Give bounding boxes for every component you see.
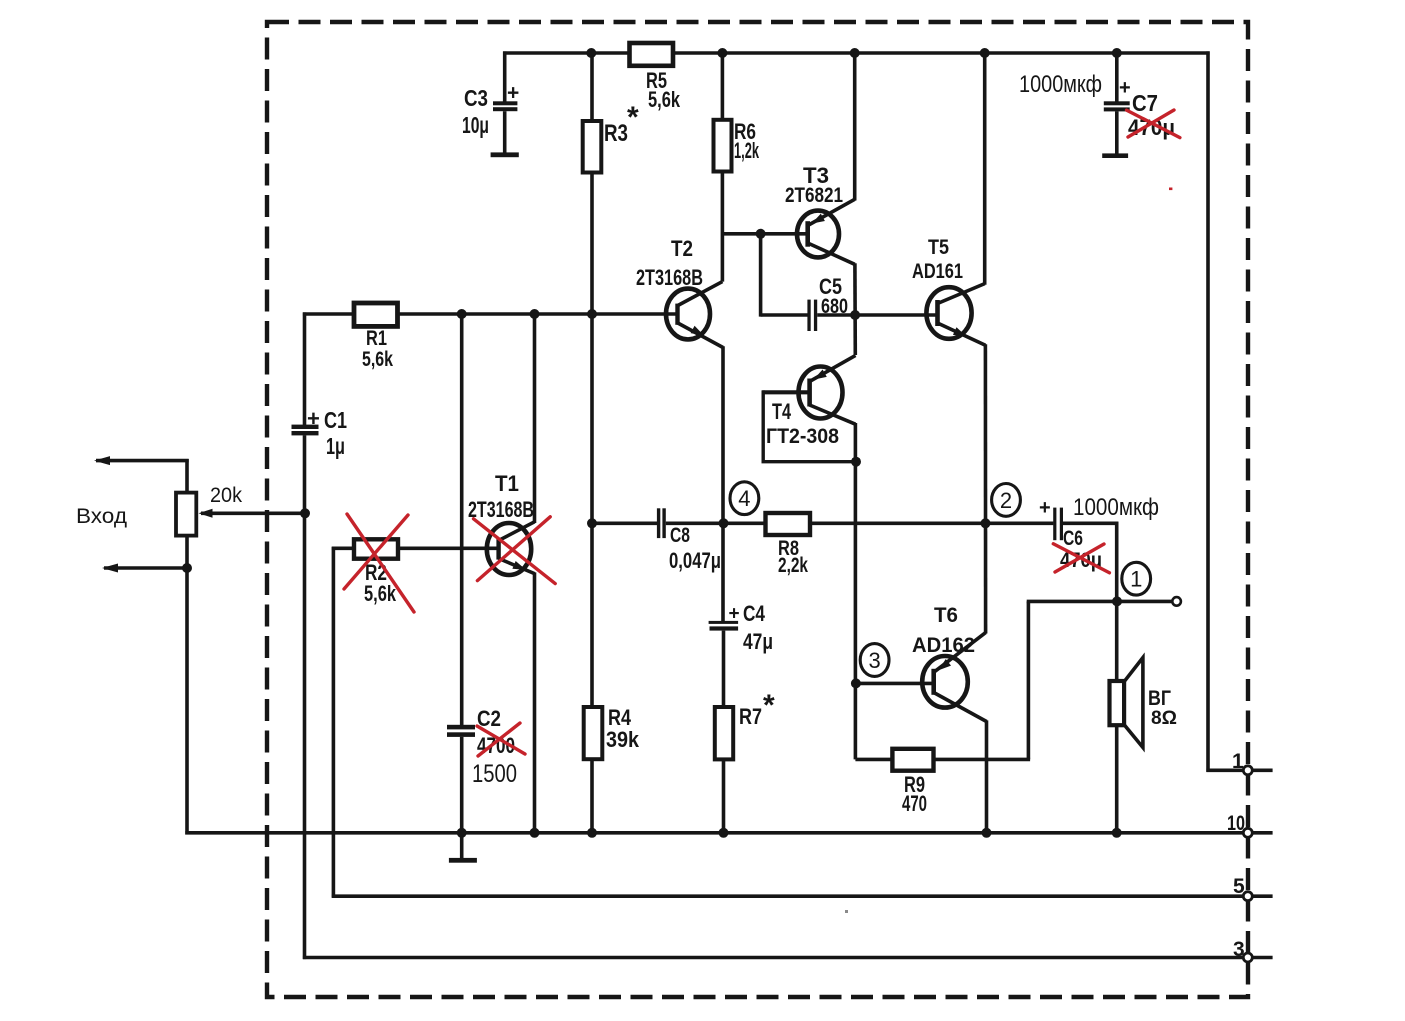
svg-text:5,6k: 5,6k (648, 87, 681, 112)
svg-text:+: + (307, 406, 320, 431)
svg-text:R1: R1 (366, 327, 387, 350)
svg-text:C1: C1 (324, 407, 347, 433)
svg-text:ВГ: ВГ (1148, 687, 1171, 710)
svg-text:470: 470 (902, 791, 927, 816)
svg-text:470μ: 470μ (1128, 115, 1175, 140)
svg-text:AD161: AD161 (912, 260, 963, 283)
svg-text:C7: C7 (1132, 90, 1158, 116)
svg-text:C6: C6 (1063, 527, 1083, 550)
svg-text:2,2k: 2,2k (778, 554, 808, 577)
svg-text:10: 10 (1227, 812, 1245, 835)
svg-text:470μ: 470μ (1060, 549, 1102, 572)
svg-text:2T6821: 2T6821 (785, 184, 843, 207)
svg-text:3: 3 (1233, 938, 1245, 961)
svg-text:T1: T1 (495, 471, 519, 496)
svg-text:680: 680 (821, 295, 848, 318)
svg-text:5,6k: 5,6k (362, 348, 393, 371)
svg-text:1500: 1500 (472, 760, 517, 788)
svg-text:AD162: AD162 (912, 634, 975, 657)
svg-text:0,047μ: 0,047μ (669, 548, 721, 573)
svg-text:1μ: 1μ (326, 433, 345, 459)
svg-text:8Ω: 8Ω (1151, 708, 1177, 729)
svg-text:2T3168B: 2T3168B (468, 497, 534, 522)
svg-text:+: + (507, 82, 519, 105)
svg-text:47μ: 47μ (743, 629, 773, 654)
svg-text:Вход: Вход (76, 505, 127, 528)
svg-text:C3: C3 (464, 85, 488, 111)
svg-text:T4: T4 (772, 399, 792, 424)
svg-text:C4: C4 (743, 601, 766, 626)
svg-text:R3: R3 (604, 120, 628, 147)
svg-text:*: * (627, 101, 639, 134)
svg-text:2: 2 (1000, 488, 1012, 513)
svg-text:ГТ2-308: ГТ2-308 (766, 425, 839, 448)
svg-text:4: 4 (738, 486, 750, 511)
svg-text:+: + (1119, 77, 1131, 99)
svg-text:+: + (729, 604, 740, 625)
svg-text:39k: 39k (606, 727, 640, 752)
svg-text:10μ: 10μ (462, 112, 489, 138)
svg-text:1: 1 (1232, 750, 1244, 773)
svg-text:1,2k: 1,2k (734, 138, 759, 163)
svg-text:1: 1 (1130, 567, 1142, 592)
svg-text:5,6k: 5,6k (364, 581, 397, 606)
svg-text:5: 5 (1233, 875, 1245, 898)
svg-text:1000мкф: 1000мкф (1073, 494, 1159, 521)
svg-text:T5: T5 (928, 236, 949, 259)
svg-text:1000мкф: 1000мкф (1019, 71, 1102, 98)
svg-text:+: + (1039, 497, 1051, 519)
svg-text:*: * (763, 689, 775, 722)
svg-text:R7: R7 (739, 704, 762, 729)
svg-text:20k: 20k (210, 484, 242, 507)
svg-text:T2: T2 (671, 236, 693, 261)
svg-text:2T3168B: 2T3168B (636, 265, 703, 290)
svg-text:3: 3 (868, 648, 880, 673)
svg-text:C8: C8 (670, 524, 690, 547)
svg-text:T6: T6 (934, 604, 958, 627)
